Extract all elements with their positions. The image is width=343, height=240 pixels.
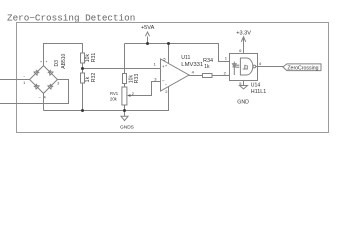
potentiometer RV1 body <box>122 87 127 105</box>
svg-text:+: + <box>165 63 168 68</box>
wire +5VA rail drop to R33 <box>124 44 126 74</box>
svg-text:+: + <box>45 60 47 64</box>
svg-text:GND: GND <box>237 99 249 105</box>
svg-text:6: 6 <box>239 48 242 53</box>
svg-text:5: 5 <box>163 57 166 62</box>
power symbol +3.3V <box>241 37 245 42</box>
op-amp U11 triangle <box>161 59 190 91</box>
wire H11L1 pin6 to +3.3V <box>243 37 245 53</box>
wire bridge plus output to R31 <box>44 44 83 66</box>
junction RV1 on GNDS rail <box>123 109 126 112</box>
svg-text:20k: 20k <box>110 96 118 101</box>
ground symbol GND <box>240 86 248 90</box>
svg-text:3: 3 <box>57 81 59 85</box>
svg-text:RV1: RV1 <box>110 91 119 96</box>
svg-text:1k: 1k <box>204 64 210 70</box>
svg-text:LMV331: LMV331 <box>181 62 203 68</box>
svg-text:3: 3 <box>154 76 157 81</box>
svg-text:U14: U14 <box>251 83 261 89</box>
optocoupler LED <box>232 62 236 76</box>
svg-text:1: 1 <box>23 81 25 85</box>
svg-text:+3.3V: +3.3V <box>236 30 251 36</box>
svg-text:4: 4 <box>44 95 46 99</box>
svg-text:+5VA: +5VA <box>141 25 155 31</box>
ground symbol GNDS <box>121 111 128 121</box>
svg-text:~: ~ <box>23 75 25 79</box>
junction op-amp V+ on rail <box>167 42 170 45</box>
wire R32 to GNDS rail <box>82 83 84 111</box>
wire RV1 to GNDS rail <box>124 105 126 111</box>
svg-text:R33: R33 <box>134 74 140 84</box>
svg-text:GNDS: GNDS <box>120 125 134 131</box>
svg-text:4: 4 <box>192 70 195 75</box>
resistor R32 body <box>81 73 85 83</box>
svg-text:4: 4 <box>259 61 262 66</box>
svg-text:ZeroCrossing: ZeroCrossing <box>287 65 318 71</box>
junction R32 on GNDS rail <box>81 109 84 112</box>
optocoupler output bubble <box>253 65 256 68</box>
wire RV1 wiper to inverting input <box>131 82 161 96</box>
wire R31 to R32 <box>82 63 84 73</box>
wire divider to noninverting input <box>83 68 161 70</box>
diode D3 lower-left <box>34 84 39 89</box>
wire op-amp V+ pin 5 <box>168 44 170 64</box>
junction +5VA symbol on rail <box>146 42 149 45</box>
wire op-amp output to R34 <box>189 75 203 77</box>
diode D3 upper-right <box>48 70 53 75</box>
svg-text:+: + <box>40 60 42 64</box>
net label ZeroCrossing tag <box>283 64 321 71</box>
svg-text:H11L1: H11L1 <box>251 89 266 95</box>
svg-text:U11: U11 <box>181 55 190 61</box>
svg-text:1: 1 <box>154 61 157 66</box>
schmitt hysteresis mark <box>243 65 248 69</box>
sheet border frame <box>17 23 329 133</box>
wire R33 to RV1 <box>124 84 126 88</box>
wire AC input 2 to bridge right <box>0 80 69 104</box>
svg-text:AB510: AB510 <box>61 53 67 68</box>
bridge rectifier D3 diamond body <box>30 66 58 94</box>
svg-text:R31: R31 <box>91 53 97 63</box>
svg-text:2: 2 <box>132 92 134 96</box>
wire H11L1 pin5 to GND <box>243 81 245 86</box>
potentiometer RV1 wiper arrow <box>127 94 130 97</box>
svg-text:R32: R32 <box>91 73 97 83</box>
optocoupler schmitt gate body <box>240 58 252 75</box>
svg-text:−: − <box>165 82 168 87</box>
diode D3 upper-left <box>34 70 39 75</box>
junction divider to +input <box>81 67 84 70</box>
wire bridge minus output down <box>43 93 45 110</box>
svg-text:1: 1 <box>225 55 228 60</box>
wire AC input 1 to bridge left <box>0 79 30 81</box>
wire GNDS rail <box>44 87 169 111</box>
wire H11L1 output to net label <box>256 66 283 68</box>
optocoupler emission arrows <box>236 65 240 68</box>
power symbol +5VA <box>145 32 149 44</box>
resistor R34 body <box>203 74 213 78</box>
wire +5VA rail to H11L1 pin1 <box>125 44 230 62</box>
svg-text:2: 2 <box>224 70 227 75</box>
optocoupler U14 H11L1 box <box>230 54 258 81</box>
svg-text:2: 2 <box>165 89 168 94</box>
diode D3 lower-right <box>48 84 53 89</box>
svg-text:~: ~ <box>39 95 41 99</box>
svg-text:Zero−Crossing Detection: Zero−Crossing Detection <box>7 13 135 24</box>
wire R34 to H11L1 pin2 <box>212 75 230 77</box>
resistor R33 body <box>123 74 127 84</box>
resistor R31 body <box>81 53 85 63</box>
svg-text:D3: D3 <box>54 60 60 67</box>
